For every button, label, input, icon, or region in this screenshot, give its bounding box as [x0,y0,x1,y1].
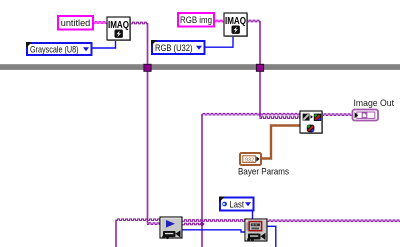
svg-text:RGB img: RGB img [180,15,212,25]
svg-text:932: 932 [245,157,254,163]
svg-text:Grayscale (U8): Grayscale (U8) [30,44,79,54]
svg-text:RGB (U32): RGB (U32) [155,43,193,53]
svg-text:Bayer Params: Bayer Params [238,167,289,177]
svg-text:Image Out: Image Out [354,98,395,108]
svg-text:IMAQ: IMAQ [225,16,246,27]
svg-text:IMAQ: IMAQ [108,20,129,31]
svg-text:Last: Last [230,199,245,209]
svg-text:untitled: untitled [61,18,91,28]
